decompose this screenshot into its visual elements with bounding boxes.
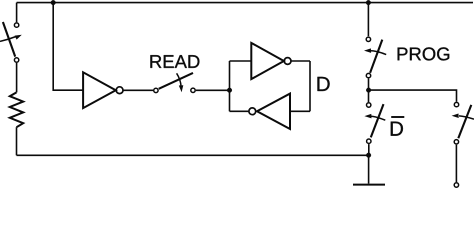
wire: latch left vertical — [229, 61, 231, 111]
wire: bottom rail — [17, 154, 369, 156]
label READ — [150, 55, 199, 68]
label PROG — [398, 47, 450, 60]
wire: switch to resistor — [16, 63, 18, 93]
inverter U3 (latch bottom, points left) — [249, 94, 290, 129]
switch PROG — [364, 37, 386, 78]
label D-bar — [391, 122, 403, 136]
switch D-bar — [364, 103, 385, 144]
node: bottom rail / ground junction — [366, 153, 371, 158]
resistor R1 — [10, 92, 23, 127]
wire: top rail drop to PROG switch — [367, 3, 369, 37]
node: junction on top rail feeding inverter column — [51, 0, 56, 5]
wire: D-bar switch to bottom rail — [368, 144, 370, 155]
wire: U3 output back to latch input — [230, 110, 249, 112]
wire: resistor to bottom rail — [16, 127, 18, 155]
wire: READ switch to latch input node — [196, 89, 230, 91]
wire: U2 output to latch right vertical — [291, 60, 310, 62]
node: latch input junction — [227, 88, 232, 93]
wire: right branch to far-right switch — [369, 90, 457, 102]
switch READ — [154, 73, 196, 93]
node: junction PROG / D-bar / right branch — [366, 88, 371, 93]
overbar of D-bar — [391, 116, 404, 118]
wire: latch top link to U2 input — [230, 60, 252, 62]
wire: far right switch to bottom terminal — [455, 145, 457, 182]
switch S5 (far right) — [452, 102, 474, 144]
wire: PROG to D-bar node — [368, 79, 370, 103]
node: junction on top rail feeding PROG switch — [366, 0, 371, 5]
inverter U1 — [83, 72, 123, 108]
switch S1 (top-left input switch) — [0, 22, 22, 62]
wire: latch right vertical (node D) — [309, 61, 311, 111]
wire: top rail drop to inverter U1 input — [53, 3, 83, 91]
wire: top supply rail — [17, 2, 473, 4]
ground — [353, 155, 385, 184]
terminal: bottom-right open terminal — [454, 183, 458, 187]
inverter U2 (latch top) — [251, 43, 291, 79]
wire: U1 output to READ switch — [123, 89, 153, 91]
label D (latch node) — [317, 77, 329, 91]
wire: left drop from top rail to switch — [16, 3, 18, 23]
wire: latch bottom link to U3 input — [290, 110, 310, 112]
